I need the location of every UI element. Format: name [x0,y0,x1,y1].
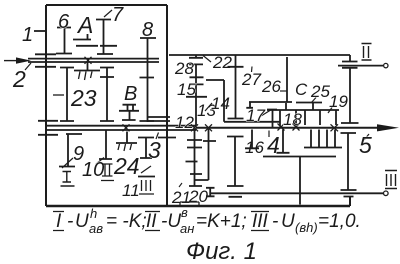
svg-text:-U: -U [161,211,181,232]
svg-text:I: I [56,211,62,232]
svg-text:B: B [124,83,137,105]
coupling below 18 [277,130,290,153]
gear 20 link [195,129,216,180]
junction at B sun [123,124,130,131]
coupling below 17 [245,130,259,149]
svg-text:1: 1 [22,24,33,46]
svg-text:ав: ав [89,221,103,236]
brake II of gear 10 [99,130,114,181]
svg-text:23: 23 [70,85,97,111]
roman II at shaft end [362,44,372,61]
brake 11 with III [138,166,155,194]
link from 14 to C sun [206,80,280,122]
svg-text:III: III [252,211,269,232]
junction at 18 left [278,124,285,131]
junction at C right [331,124,339,131]
housing frame [46,5,350,206]
formula clause III [251,211,361,235]
svg-text:в: в [181,205,188,220]
bearing right of wall below axis [158,137,176,139]
svg-text:Фиг. 1: Фиг. 1 [186,238,257,264]
clutch II lower half and drum 19 [341,68,359,123]
svg-text:C: C [295,80,308,99]
svg-text:12: 12 [175,113,194,132]
box 18 [267,110,339,127]
svg-text:A: A [76,12,93,38]
middle sun shaft vertical [195,64,197,125]
clutch 26 vertical [286,57,287,110]
svg-text:27: 27 [241,70,261,89]
svg-text:5: 5 [359,132,372,158]
gear 17 [246,102,292,127]
svg-text:25: 25 [310,82,330,101]
gear 7 [96,20,117,55]
lower main axis double line [46,126,196,130]
bearing right of B [147,117,170,121]
svg-text:24: 24 [113,153,140,179]
svg-text:20: 20 [188,187,208,206]
brake 24 [116,132,137,152]
label 10 [96,158,104,165]
element 3 coupling [138,138,154,159]
input shaft I double line [28,59,159,62]
input shaft I arrow [4,57,31,63]
coupling 20 on shaft III [206,188,215,197]
svg-text:22: 22 [212,53,232,72]
svg-text:10: 10 [82,159,104,181]
svg-text:26: 26 [261,77,281,96]
shaft II [338,63,388,67]
svg-text:14: 14 [211,94,230,113]
gear B [119,105,139,120]
upper link line 22 [169,54,350,56]
svg-text:8: 8 [142,19,153,41]
svg-text:7: 7 [112,4,124,26]
gear 8 [140,38,157,122]
sun gear A [73,34,98,46]
brake 23 [74,62,100,80]
gear set C lower box [304,130,342,148]
drum 16 [227,137,244,197]
label 22 [203,56,211,63]
clutch II upper half [342,55,358,62]
carrier bar 13 [186,96,207,98]
svg-text:II: II [146,211,157,232]
svg-text:-: - [272,211,278,232]
svg-text:= -K;: = -K; [106,211,147,232]
label 25 [311,98,316,104]
carrier drum of set A [60,68,114,122]
svg-text:28: 28 [174,59,194,78]
brake I of gear 9 [59,134,82,186]
label 19 [328,108,332,114]
carrier C to housing [263,157,336,205]
junction at 18 right [293,124,300,131]
roman III at shaft end [385,171,397,189]
svg-text:=1,0.: =1,0. [318,211,361,232]
bearing on left wall upper shaft [35,54,56,67]
svg-text:(вh): (вh) [295,220,318,235]
shaft III [211,191,388,196]
junction at 21 [191,124,198,131]
label 14 [205,103,212,111]
bearing on left wall lower axis [38,121,58,135]
label 4 [268,131,270,138]
svg-text:19: 19 [329,92,348,111]
formula clause I [53,206,147,236]
label 2 leader [25,63,31,70]
svg-text:18: 18 [283,110,302,129]
svg-text:17: 17 [246,106,265,125]
svg-text:h: h [90,206,97,221]
svg-text:2: 2 [12,66,26,92]
label 1 leader [34,30,46,32]
pad on housing [180,202,199,206]
gear 21 shaft [186,129,203,186]
junction at 20 [205,124,212,131]
svg-text:=K+1;: =K+1; [196,211,247,232]
lower main axis single line [196,127,380,129]
brake 27 [228,67,244,119]
gear set C upper box [305,110,336,125]
svg-text:6: 6 [58,11,70,33]
svg-text:U: U [281,211,295,232]
sun bar 25 [296,103,322,111]
clutch 28 [189,55,203,64]
tick on left wall [53,94,64,96]
gear 15 [190,77,204,84]
junction on shaft at A [85,57,92,64]
gear 6 [56,28,72,54]
stub to brake 27 [235,55,237,67]
formula clause II [145,205,247,236]
svg-text:11: 11 [122,181,140,200]
svg-text:3: 3 [148,137,161,163]
right drum below axis [341,133,357,197]
svg-text:4: 4 [267,132,280,158]
svg-text:-: - [67,211,73,232]
output arrow 5 [377,124,399,131]
svg-text:U: U [75,211,89,232]
svg-text:ан: ан [180,221,194,236]
label 9 [62,158,73,168]
